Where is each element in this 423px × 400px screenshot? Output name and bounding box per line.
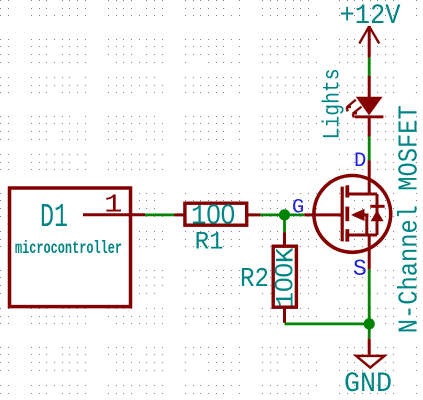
svg-text:100K: 100K xyxy=(271,248,301,308)
svg-text:Lights: Lights xyxy=(320,68,346,139)
svg-text:N-Channel MOSFET: N-Channel MOSFET xyxy=(394,105,423,333)
svg-text:R1: R1 xyxy=(195,228,224,257)
svg-text:D: D xyxy=(354,150,366,173)
svg-text:GND: GND xyxy=(344,369,392,400)
svg-text:1: 1 xyxy=(104,190,123,220)
svg-text:R2: R2 xyxy=(240,265,269,295)
svg-text:microcontroller: microcontroller xyxy=(15,239,122,259)
svg-text:D1: D1 xyxy=(40,199,68,237)
svg-text:+12V: +12V xyxy=(340,1,401,32)
svg-text:S: S xyxy=(353,256,367,282)
svg-text:G: G xyxy=(292,196,304,219)
